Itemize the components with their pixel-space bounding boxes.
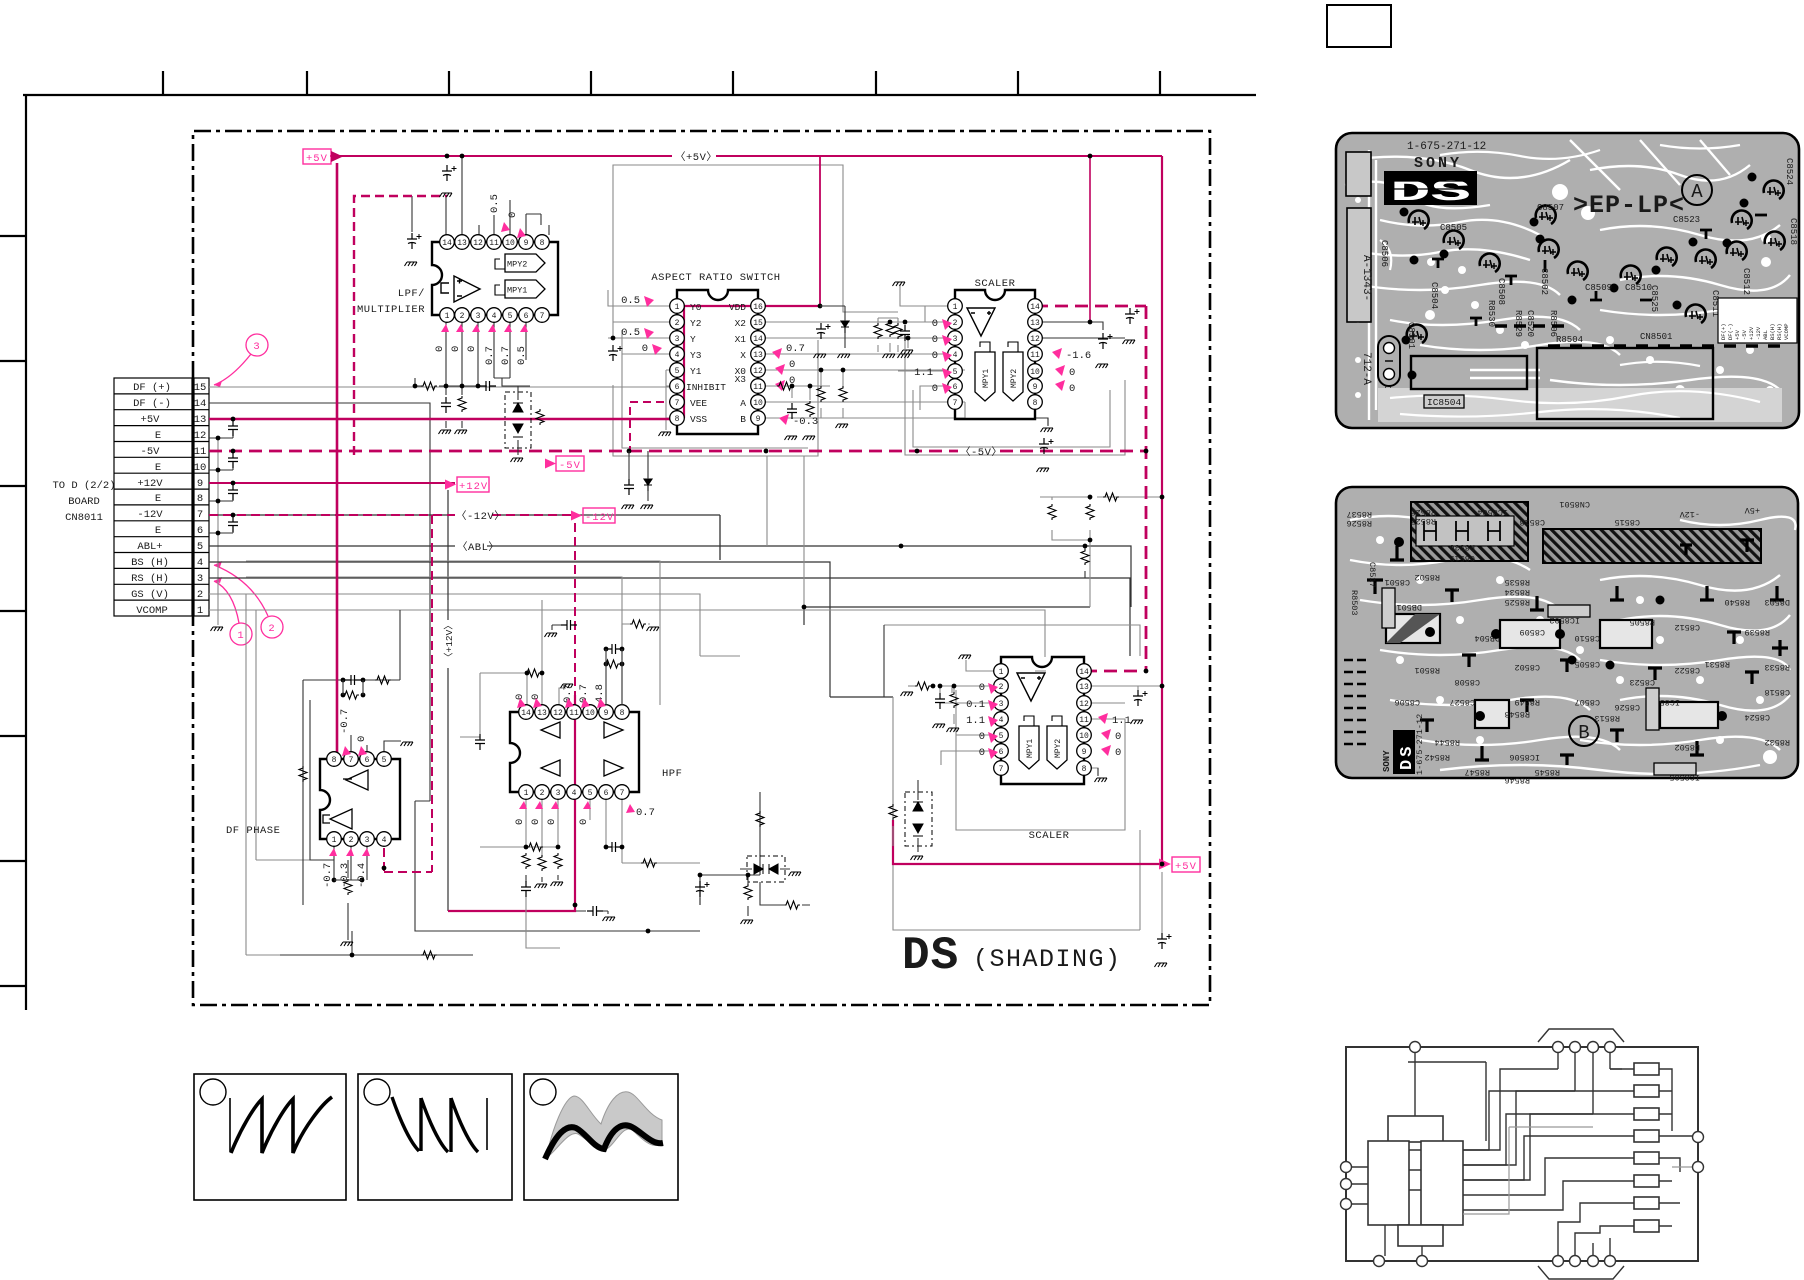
ground df phase pin5 [401, 742, 414, 746]
svg-text:14: 14 [1079, 668, 1089, 677]
svg-text:1-675-271-12: 1-675-271-12 [1415, 714, 1425, 775]
capacitor C hpf top right pair [604, 644, 625, 705]
svg-text:E: E [155, 525, 161, 537]
svg-text:0: 0 [1115, 747, 1121, 759]
svg-text:5: 5 [999, 732, 1004, 741]
schematic boundary dash-dot box [193, 131, 1210, 1005]
svg-text:0: 0 [789, 359, 795, 371]
svg-text:C8501: C8501 [1384, 577, 1410, 587]
resistor R df+ line [777, 382, 815, 440]
svg-text:0: 0 [530, 819, 542, 825]
resistor R df phase left [299, 766, 307, 782]
svg-text:C8526: C8526 [1614, 702, 1640, 712]
wiring diagram pin circles [1341, 1042, 1704, 1267]
svg-text:10: 10 [505, 239, 515, 248]
svg-text:1.1: 1.1 [914, 367, 933, 379]
+5V right vertical to bottom [893, 156, 1162, 864]
svg-text:0: 0 [466, 346, 478, 352]
U1 pin circles bottom row 1-7 [440, 308, 550, 323]
page ruler tick marks top [163, 71, 1160, 95]
svg-text:DB501: DB501 [1396, 602, 1422, 612]
capacitor C table E row7 [228, 516, 238, 532]
svg-text:RS (H): RS (H) [131, 573, 169, 585]
svg-text:R8536: R8536 [1449, 542, 1475, 552]
capacitor C mid bottom [695, 873, 753, 924]
+5V scaler pin13 drop [1089, 156, 1091, 322]
svg-text:ASPECT RATIO SWITCH: ASPECT RATIO SWITCH [651, 272, 780, 284]
svg-text:16: 16 [753, 303, 763, 312]
PCB A component rings [1407, 181, 1785, 343]
svg-text:DF (+): DF (+) [133, 382, 171, 394]
svg-text:-1.6: -1.6 [1066, 350, 1091, 362]
svg-text:3: 3 [253, 341, 260, 353]
svg-text:7: 7 [675, 399, 680, 408]
resistor R mid cluster [1048, 493, 1119, 520]
svg-text:10: 10 [1030, 368, 1040, 377]
svg-text:7: 7 [620, 789, 625, 798]
svg-text:0: 0 [979, 747, 985, 759]
svg-text:C8518: C8518 [1519, 517, 1545, 527]
resistor R lpf feedback [413, 381, 496, 391]
svg-text:2: 2 [999, 683, 1004, 692]
svg-text:VEE: VEE [690, 398, 707, 409]
PCB B hatched connector top-left [1411, 502, 1528, 561]
capacitor C aspect left [608, 336, 623, 361]
wire aspect switch left inputs [608, 290, 677, 354]
svg-text:0.7: 0.7 [500, 346, 512, 365]
svg-text:D8503: D8503 [1764, 597, 1790, 607]
switch U2 ASPECT RATIO SWITCH body [677, 290, 758, 434]
U2 pin circles right 16-9 [751, 299, 766, 426]
svg-text:R8535: R8535 [1504, 577, 1530, 587]
svg-text:R8531: R8531 [1704, 659, 1730, 669]
diode D minus5 filter [641, 451, 654, 509]
svg-text:8: 8 [675, 415, 680, 424]
svg-text:SONY: SONY [1414, 155, 1462, 172]
connector table pin name labels [131, 382, 171, 617]
svg-text:〈ABL〉: 〈ABL〉 [457, 541, 499, 554]
svg-text:13: 13 [537, 709, 547, 718]
svg-text:DF(+): DF(+) [1720, 323, 1727, 340]
zener diode D vdd [820, 306, 850, 358]
svg-text:3: 3 [365, 836, 370, 845]
svg-text:2: 2 [349, 836, 354, 845]
resistor R hpf bottom columns [521, 853, 563, 948]
scaler U6 bottom body [1001, 657, 1084, 784]
svg-text:R8503: R8503 [1349, 590, 1359, 616]
svg-text:C8508: C8508 [1496, 278, 1506, 305]
capacitor C top rail bypass [440, 165, 457, 197]
svg-text:Y0: Y0 [690, 302, 702, 313]
svg-text:GS (V): GS (V) [131, 589, 169, 601]
-5V vee branch dashed [630, 402, 677, 451]
svg-text:R8504: R8504 [1556, 335, 1583, 345]
svg-text:MPY2: MPY2 [1054, 739, 1063, 758]
svg-text:3: 3 [556, 789, 561, 798]
resistor R hpf bottom left [524, 843, 561, 851]
+5V dashed branch to LPF [354, 196, 447, 455]
svg-text:C8510: C8510 [1625, 283, 1652, 293]
svg-text:-5V: -5V [141, 446, 161, 458]
svg-text:〈+12V〉: 〈+12V〉 [444, 620, 455, 662]
-12V dashed drop to hpf [574, 523, 576, 695]
svg-text:0: 0 [932, 350, 938, 362]
svg-text:10: 10 [585, 709, 595, 718]
capacitor C vdd bypass [814, 304, 831, 358]
svg-text:C8527: C8527 [1449, 697, 1475, 707]
PCB A component labels [1379, 158, 1798, 412]
page ruler tick marks left [0, 236, 26, 986]
svg-text:-12V: -12V [1755, 326, 1762, 340]
svg-text:MULTIPLIER: MULTIPLIER [357, 304, 425, 316]
svg-text:11: 11 [753, 383, 763, 392]
svg-text:R8540: R8540 [1724, 597, 1750, 607]
svg-text:7: 7 [999, 765, 1004, 774]
svg-text:ABL: ABL [1762, 330, 1769, 340]
svg-text:9: 9 [604, 709, 609, 718]
wire loop rect below scaler top [905, 354, 1125, 455]
svg-text:Y1: Y1 [690, 366, 702, 377]
svg-text:C8510: C8510 [1574, 633, 1600, 643]
+5V row13 feed [209, 306, 820, 419]
PCB A dashed wire [1495, 326, 1790, 346]
svg-text:DS: DS [902, 930, 959, 982]
op-amp U1 LPF/MULTIPLIER body [432, 242, 558, 315]
PCB B boxed refs [1382, 588, 1696, 775]
svg-text:-0.4: -0.4 [356, 863, 368, 888]
multiplier MPY2 in U1 [495, 254, 545, 272]
svg-text:11: 11 [569, 709, 579, 718]
svg-text:ABL+: ABL+ [137, 541, 162, 553]
PCB A solder dots [1400, 173, 1757, 380]
svg-text:TO D (2/2): TO D (2/2) [52, 480, 115, 492]
+5V vdd drop [786, 156, 820, 306]
svg-text:BS(H): BS(H) [1769, 323, 1776, 340]
PCB A light bottom band [1378, 388, 1782, 422]
svg-text:R8548: R8548 [1504, 709, 1530, 719]
svg-text:IC8504: IC8504 [1477, 507, 1508, 517]
PCB B white pads [1376, 536, 1777, 764]
magenta hpf pin4 drop [448, 695, 575, 911]
svg-text:C8508: C8508 [1454, 677, 1480, 687]
svg-text:SCALER: SCALER [975, 278, 1016, 290]
svg-text:1: 1 [524, 789, 529, 798]
svg-text:+12V: +12V [137, 478, 163, 490]
svg-text:-12V: -12V [1679, 509, 1700, 519]
U3 multiplier MPY2 [1003, 342, 1023, 401]
svg-text:9: 9 [1082, 748, 1087, 757]
svg-text:LPF/: LPF/ [398, 288, 425, 300]
wire loop rectangles around aspect switch [613, 330, 818, 456]
U5 pink voltage callouts [514, 684, 655, 825]
U6 multiplier MPY1 [1019, 716, 1039, 769]
multiplier MPY1 in U1 [495, 280, 545, 298]
svg-text:C8509: C8509 [1519, 627, 1545, 637]
+12V label box [445, 477, 489, 493]
capacitor C u3 pin1 loop [1037, 438, 1054, 472]
svg-text:15: 15 [753, 319, 763, 328]
resistor R x0 load [817, 368, 848, 428]
wire df phase surroundings [280, 610, 473, 955]
svg-text:R8544: R8544 [1434, 737, 1460, 747]
svg-text:R8501: R8501 [1414, 665, 1440, 675]
svg-text:C8507: C8507 [1537, 203, 1564, 213]
wire aspect switch right outputs [758, 306, 965, 418]
resistor R abl drop [1081, 544, 1089, 578]
svg-text:0.5: 0.5 [621, 295, 640, 307]
svg-text:>EP-LP<: >EP-LP< [1573, 191, 1685, 220]
svg-text:-5V: -5V [1741, 329, 1748, 340]
svg-text:R8525: R8525 [1504, 597, 1530, 607]
svg-text:MPY2: MPY2 [1010, 369, 1019, 388]
resistor R hpf top left [525, 620, 659, 688]
-12V row7 feed dashed [209, 515, 720, 560]
svg-text:-0.7: -0.7 [339, 709, 351, 734]
svg-text:-0.7: -0.7 [322, 863, 334, 888]
svg-text:+12V: +12V [1748, 326, 1755, 340]
svg-text:0: 0 [507, 212, 519, 218]
svg-text:+5V: +5V [1734, 329, 1741, 340]
svg-text:+5V: +5V [141, 414, 161, 426]
junction dots rails [216, 154, 1165, 958]
svg-text:0.1: 0.1 [966, 699, 985, 711]
svg-text:IC8504: IC8504 [1427, 397, 1462, 408]
capacitor C minus5 filter [622, 451, 635, 509]
U5 pin circles top 14-8 [519, 705, 630, 720]
svg-text:R8547: R8547 [1464, 767, 1490, 777]
+5V vertical feed left [336, 163, 339, 752]
PCB B diagonal fill in IC1 [1386, 614, 1440, 643]
svg-text:VDD: VDD [729, 302, 746, 313]
svg-text:0: 0 [356, 736, 368, 742]
wire scaler top left network [890, 284, 955, 410]
resistor R u6 pin2 [901, 682, 943, 696]
svg-text:MPY1: MPY1 [982, 369, 991, 388]
svg-text:D8502: D8502 [1674, 742, 1700, 752]
svg-text:13: 13 [457, 239, 467, 248]
svg-text:6: 6 [524, 312, 529, 321]
svg-text:+5V: +5V [1175, 861, 1197, 873]
svg-text:MPY2: MPY2 [507, 260, 527, 270]
wire +12V vertical with label gap [447, 490, 449, 911]
svg-text:R8505: R8505 [1629, 617, 1655, 627]
svg-text:8: 8 [620, 709, 625, 718]
svg-text:IC8506: IC8506 [1509, 752, 1540, 762]
svg-text:E: E [155, 493, 161, 505]
resistor R bottom mid [756, 811, 810, 909]
svg-text:0: 0 [1115, 731, 1121, 743]
svg-text:1: 1 [675, 303, 680, 312]
TO D BOARD CN8011 label [52, 480, 115, 524]
PCB B solder dots [1394, 537, 1727, 721]
svg-text:4: 4 [492, 312, 497, 321]
svg-text:R8534: R8534 [1504, 587, 1530, 597]
svg-text:C8525: C8525 [1649, 285, 1659, 312]
svg-text:7: 7 [197, 509, 203, 521]
capacitor C lpf pin1 [439, 397, 452, 434]
wire top +5V gray return [613, 165, 898, 340]
svg-text:C8524: C8524 [1744, 712, 1770, 722]
svg-text:Y: Y [690, 334, 696, 345]
U4 pink voltage callouts [322, 709, 368, 888]
svg-text:C8518: C8518 [1788, 218, 1798, 245]
svg-text:6: 6 [999, 748, 1004, 757]
svg-text:0: 0 [578, 819, 590, 825]
svg-text:0.5: 0.5 [621, 327, 640, 339]
PCB A white pads [1355, 167, 1774, 422]
svg-text:〈-5V〉: 〈-5V〉 [960, 446, 1002, 459]
scaler U3 top body [955, 290, 1035, 419]
annotation circle 2 [214, 565, 283, 638]
PCB B component labels upside down [1346, 499, 1790, 785]
U6 pin8 ground stub [1095, 768, 1108, 782]
capacitor C table E row11 [228, 452, 238, 468]
svg-text:C8507: C8507 [1574, 697, 1600, 707]
svg-text:4: 4 [953, 351, 958, 360]
svg-text:C8505: C8505 [1574, 659, 1600, 669]
capacitor C lpf left [405, 233, 422, 266]
PCB B DS logo small [1382, 714, 1425, 775]
svg-text:0.7: 0.7 [786, 343, 805, 355]
PCB A bottom outline rects [1411, 348, 1713, 419]
svg-text:C8515: C8515 [1614, 517, 1640, 527]
PCB board A outline [1336, 133, 1799, 428]
svg-text:1.1: 1.1 [966, 715, 985, 727]
svg-text:R8506: R8506 [1548, 310, 1558, 337]
U3 pin circles right 14-8 [1028, 299, 1043, 410]
svg-text:7: 7 [540, 312, 545, 321]
svg-text:0: 0 [979, 731, 985, 743]
U4 pin circles bottom 1-4 [327, 832, 392, 847]
svg-text:C8502: C8502 [1514, 662, 1540, 672]
svg-text:B: B [740, 414, 746, 425]
svg-text:6: 6 [953, 383, 958, 392]
U1 pink voltage callouts [434, 194, 528, 365]
PCB A left silk boxes [1346, 152, 1371, 322]
svg-text:R8530: R8530 [1486, 300, 1496, 327]
wire scaler top right network [1035, 322, 1125, 425]
wiring diagram top bracket [1538, 1029, 1624, 1042]
capacitor C table E row13 [228, 420, 238, 436]
-12V dashed left drop [384, 515, 432, 872]
U3 op-amp triangle [967, 308, 995, 336]
svg-text:4: 4 [675, 351, 680, 360]
svg-text:DF(-): DF(-) [1727, 323, 1734, 340]
svg-text:5: 5 [382, 756, 387, 765]
svg-text:14: 14 [521, 709, 531, 718]
wiring diagram resistor boxes column [1634, 1063, 1659, 1232]
svg-text:C8519: C8519 [1449, 553, 1475, 563]
svg-text:CN8501: CN8501 [1559, 499, 1590, 509]
svg-text:2: 2 [953, 319, 958, 328]
PCB B IC footprint rects [1386, 614, 1718, 728]
wire ABL net from pin5 [209, 546, 1131, 625]
wire GS net from pin2 [209, 594, 740, 656]
svg-text:C8501: C8501 [1406, 322, 1416, 349]
svg-text:13: 13 [194, 414, 207, 426]
wire lpf top stubs [412, 156, 549, 235]
svg-text:R8513: R8513 [1594, 713, 1620, 723]
wire RS net from pin3 [209, 578, 1130, 656]
U4 pin circles top 8-5 [327, 752, 392, 767]
U2 pink voltage callouts [621, 295, 818, 428]
svg-text:1: 1 [445, 312, 450, 321]
svg-text:C8517: C8517 [1367, 562, 1377, 588]
svg-text:10: 10 [1079, 732, 1089, 741]
U2 pin name labels [686, 302, 726, 425]
capacitor C df phase top [341, 675, 391, 685]
wire bottom scaler surroundings [893, 660, 1162, 930]
PCB A vertical part numbers [1360, 255, 1372, 385]
waveform box 1 [194, 1074, 346, 1200]
svg-text:0: 0 [932, 383, 938, 395]
resistor R lpf pin2 [455, 396, 468, 434]
svg-text:0: 0 [546, 819, 558, 825]
svg-text:A: A [1691, 181, 1703, 203]
resistor R scaler top left [883, 282, 911, 358]
capacitor C plus12 decouple [545, 620, 578, 637]
-5V label box [545, 456, 584, 472]
svg-text:14: 14 [753, 335, 763, 344]
svg-text:1.1: 1.1 [1112, 715, 1131, 727]
svg-text:9: 9 [524, 239, 529, 248]
svg-text:0: 0 [932, 318, 938, 330]
svg-text:0: 0 [514, 819, 526, 825]
svg-text:5: 5 [588, 789, 593, 798]
svg-text:14: 14 [194, 398, 207, 410]
svg-text:C8524: C8524 [1784, 158, 1794, 185]
svg-text:1: 1 [953, 303, 958, 312]
waveform box 2 [358, 1074, 512, 1200]
U6 multiplier MPY2 [1047, 716, 1067, 769]
capacitor C scaler pin13 [1096, 333, 1113, 368]
svg-text:R8528: R8528 [1410, 507, 1436, 517]
op-amp U4 DF PHASE body [320, 759, 400, 839]
svg-text:〈+5V〉: 〈+5V〉 [675, 151, 717, 164]
svg-text:VCOMP: VCOMP [136, 605, 168, 617]
U3 pin circles left 1-7 [948, 299, 963, 410]
wiring diagram column wires [1352, 1052, 1698, 1256]
svg-text:10: 10 [753, 399, 763, 408]
svg-text:9: 9 [197, 478, 203, 490]
U1 pin circles top row 14-8 [440, 235, 550, 250]
svg-text:VSS: VSS [690, 414, 707, 425]
PCB B white trace texture [1350, 516, 1796, 774]
svg-text:C8518: C8518 [1764, 687, 1790, 697]
PCB A white trace texture [1345, 140, 1790, 420]
svg-text:C8509: C8509 [1585, 283, 1612, 293]
svg-text:B: B [1578, 722, 1589, 744]
svg-text:0.5: 0.5 [489, 194, 501, 213]
svg-text:6: 6 [365, 756, 370, 765]
svg-text:4: 4 [197, 557, 203, 569]
svg-text:4: 4 [382, 836, 387, 845]
svg-text:CN8501: CN8501 [1640, 332, 1672, 342]
PCB A extra texture [1380, 145, 1760, 413]
svg-text:R8532: R8532 [1764, 737, 1790, 747]
ground aspect inhibit [659, 432, 672, 436]
+5V top rail [330, 155, 1162, 157]
-5V dashed rail [209, 306, 1146, 671]
svg-text:-12V: -12V [585, 512, 614, 524]
svg-text:5: 5 [197, 541, 203, 553]
svg-text:13: 13 [1030, 319, 1040, 328]
svg-text:+5V: +5V [1744, 505, 1760, 515]
svg-text:R8546: R8546 [1504, 775, 1530, 785]
diode pair D scaler bottom [889, 780, 932, 860]
PCB B inner white box in connector [1416, 516, 1514, 546]
capacitor C hpf out coupling [587, 906, 615, 921]
